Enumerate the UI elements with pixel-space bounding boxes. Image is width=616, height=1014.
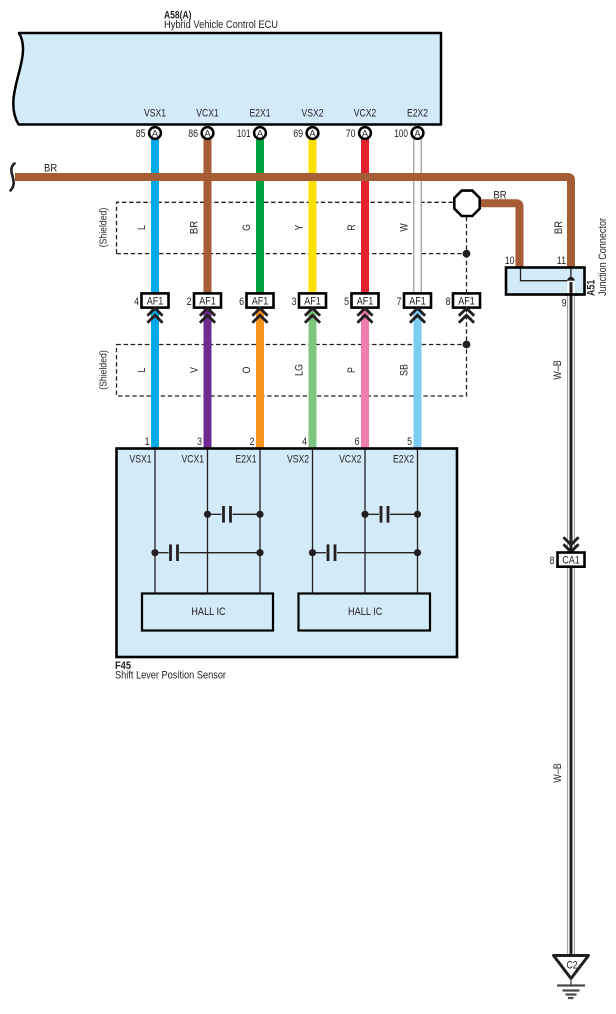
shift lever position sensor F45 box xyxy=(117,449,458,658)
wire W (white) pin 100 ECU to AF1 pin 7 xyxy=(413,138,421,294)
label BR (upper wire color, rotated) xyxy=(189,221,201,234)
ECU connector pin 100 terminal A xyxy=(394,127,423,140)
label A51 (rotated) xyxy=(586,280,598,296)
ECU connector pin 86 terminal A xyxy=(188,127,213,140)
svg-text:101: 101 xyxy=(237,128,251,140)
A51 pin number 11 xyxy=(557,255,566,267)
svg-text:A: A xyxy=(257,129,264,140)
sensor pin number 6 xyxy=(355,436,360,448)
sensor pin name VSX1 xyxy=(130,454,152,466)
label O (lower wire color, rotated) xyxy=(241,366,253,373)
internal conductor from pin 5 (E2X2) xyxy=(417,450,419,595)
shield node on box 1 xyxy=(463,250,471,258)
svg-text:VCX1: VCX1 xyxy=(196,108,218,120)
label BR (vertical run, rotated) xyxy=(553,221,565,234)
svg-text:70: 70 xyxy=(346,128,356,140)
svg-text:BR: BR xyxy=(493,190,506,202)
label L (lower wire color, rotated) xyxy=(136,368,148,373)
svg-text:VSX1: VSX1 xyxy=(144,108,166,120)
capacitor C-a between VCX1 and E2X1 xyxy=(204,506,264,523)
junction connector A51 box xyxy=(506,268,585,295)
label W (upper wire color, rotated) xyxy=(399,223,411,232)
connector AF1 pin 6 xyxy=(239,293,273,308)
sensor pin name VSX2 xyxy=(287,454,309,466)
label Hybrid Vehicle Control ECU xyxy=(164,19,278,31)
sensor pin name E2X1 xyxy=(236,454,257,466)
ECU pin name VCX2 xyxy=(354,108,376,120)
shield box 2 (lower shielded cable) xyxy=(117,345,467,397)
octagon splice junction xyxy=(454,191,479,216)
sensor pin number 3 xyxy=(197,436,202,448)
svg-text:Junction Connector: Junction Connector xyxy=(597,218,609,296)
internal conductor from pin 6 (VCX2) xyxy=(364,450,366,595)
svg-text:Hybrid Vehicle Control ECU: Hybrid Vehicle Control ECU xyxy=(164,19,278,31)
svg-text:E2X1: E2X1 xyxy=(236,454,257,466)
shield node on box 2 xyxy=(463,341,471,349)
svg-text:VCX2: VCX2 xyxy=(339,454,361,466)
ground point C2 triangle xyxy=(554,956,589,979)
svg-text:A: A xyxy=(362,129,369,140)
svg-text:85: 85 xyxy=(136,128,146,140)
svg-text:VSX2: VSX2 xyxy=(302,108,324,120)
capacitor C-b between VSX1 and E2X1 xyxy=(151,544,263,561)
svg-text:CA1: CA1 xyxy=(562,555,580,567)
label W-B (lower, rotated) xyxy=(552,763,564,783)
ground symbol bars xyxy=(557,979,585,999)
connector CA1 pin 8 xyxy=(550,553,585,568)
svg-text:A51: A51 xyxy=(586,280,598,296)
svg-text:2: 2 xyxy=(250,436,255,448)
label SB (lower wire color, rotated) xyxy=(399,364,411,376)
wire V from AF1 pin 2 to sensor pin 3 xyxy=(204,309,212,449)
svg-text:E2X1: E2X1 xyxy=(250,108,271,120)
svg-text:VCX2: VCX2 xyxy=(354,108,376,120)
chevron arrows below AF1 pin 4 xyxy=(147,308,162,323)
svg-text:100: 100 xyxy=(394,128,408,140)
shield drain wire (dashed) from AF1 pin 8 chevron to box 2 xyxy=(466,308,468,345)
shield drain wire (dashed) from octagon to node xyxy=(466,217,468,254)
sensor pin number 5 xyxy=(407,436,412,448)
svg-text:11: 11 xyxy=(557,255,566,267)
torn end squiggle of BR wire xyxy=(11,164,15,191)
svg-text:L: L xyxy=(136,225,148,230)
svg-text:AF1: AF1 xyxy=(199,296,216,308)
connector AF1 pin 2 xyxy=(187,293,221,308)
wire L from AF1 pin 4 to sensor pin 1 xyxy=(151,309,159,449)
svg-text:69: 69 xyxy=(293,128,303,140)
svg-text:5: 5 xyxy=(344,296,349,308)
sensor pin name VCX1 xyxy=(182,454,204,466)
chevron arrows above CA1 (pointing down) xyxy=(563,537,578,552)
internal conductor from pin 2 (E2X1) xyxy=(259,450,261,595)
connector AF1 pin 7 xyxy=(397,293,431,308)
A51 pin number 10 xyxy=(505,255,515,267)
wire L pin 85 ECU to AF1 pin 4 xyxy=(151,138,159,294)
label LG (lower wire color, rotated) xyxy=(294,364,306,376)
wire P from AF1 pin 5 to sensor pin 6 xyxy=(361,309,369,449)
ECU connector pin 69 terminal A xyxy=(293,127,318,140)
wire SB from AF1 pin 7 to sensor pin 5 xyxy=(414,309,422,449)
svg-text:8: 8 xyxy=(446,296,451,308)
label BR (octagon branch) xyxy=(493,190,506,202)
svg-text:AF1: AF1 xyxy=(357,296,374,308)
svg-text:1: 1 xyxy=(145,436,150,448)
svg-text:3: 3 xyxy=(197,436,202,448)
sensor pin number 1 xyxy=(145,436,150,448)
wire LG from AF1 pin 3 to sensor pin 4 xyxy=(309,309,317,449)
ECU pin name E2X1 xyxy=(250,108,271,120)
svg-text:5: 5 xyxy=(407,436,412,448)
svg-text:W–B: W–B xyxy=(552,763,564,783)
connector AF1 pin 4 xyxy=(134,293,168,308)
svg-text:7: 7 xyxy=(397,296,402,308)
svg-text:SB: SB xyxy=(399,364,411,376)
chevron arrows below AF1 pin 2 xyxy=(200,308,215,323)
svg-text:AF1: AF1 xyxy=(252,296,269,308)
label Shift Lever Position Sensor xyxy=(115,670,226,682)
wire BR from octagon junction to junction connector pin 10 xyxy=(481,203,520,267)
capacitor C-d between VSX2 and E2X2 xyxy=(309,544,421,561)
svg-text:W: W xyxy=(399,223,411,232)
ECU connector pin 101 terminal A xyxy=(237,127,266,140)
wire O from AF1 pin 6 to sensor pin 2 xyxy=(256,309,264,449)
label W-B (upper, rotated) xyxy=(552,360,564,380)
connector AF1 pin 8 xyxy=(446,293,480,308)
label G (upper wire color, rotated) xyxy=(241,224,253,231)
chevron arrows below AF1 pin 5 xyxy=(357,308,372,323)
label L (upper wire color, rotated) xyxy=(136,225,148,230)
svg-text:HALL IC: HALL IC xyxy=(348,606,382,618)
svg-text:AF1: AF1 xyxy=(304,296,321,308)
chevron arrows below AF1 pin 6 xyxy=(252,308,267,323)
wire Y pin 69 ECU to AF1 pin 3 xyxy=(309,138,317,294)
svg-text:C2: C2 xyxy=(567,960,578,972)
A51 box bottom border over W-B wire xyxy=(565,293,578,296)
chevron arrows below AF1 pin 8 xyxy=(459,308,474,323)
svg-text:10: 10 xyxy=(505,255,515,267)
wire BR pin 86 ECU to AF1 pin 2 xyxy=(204,138,212,294)
svg-text:4: 4 xyxy=(134,296,139,308)
label A58(A) xyxy=(164,10,192,22)
chevron arrows below AF1 pin 7 xyxy=(410,308,425,323)
svg-text:A: A xyxy=(309,129,316,140)
Hall IC 2 xyxy=(299,594,431,631)
shield drain wire (dashed) from node to AF1 pin 8 xyxy=(466,254,468,294)
svg-text:O: O xyxy=(241,366,253,373)
svg-text:AF1: AF1 xyxy=(458,296,475,308)
svg-text:(Shielded): (Shielded) xyxy=(99,208,110,248)
label F45 xyxy=(115,660,131,672)
label R (upper wire color, rotated) xyxy=(346,224,358,230)
sensor pin number 4 xyxy=(302,436,307,448)
svg-text:LG: LG xyxy=(294,364,306,376)
wire R pin 70 ECU to AF1 pin 5 xyxy=(361,138,369,294)
svg-text:6: 6 xyxy=(239,296,244,308)
svg-text:A: A xyxy=(204,129,211,140)
svg-text:A: A xyxy=(152,129,159,140)
svg-text:VSX2: VSX2 xyxy=(287,454,309,466)
svg-text:Shift Lever Position Sensor: Shift Lever Position Sensor xyxy=(115,670,226,682)
svg-text:8: 8 xyxy=(550,555,555,567)
wire W-B from A51 pin 9 to ground, upper section xyxy=(567,281,575,956)
label (Shielded) box 2 xyxy=(99,350,110,390)
internal conductor from pin 1 (VSX1) xyxy=(154,450,156,595)
A51 pin number 9 xyxy=(562,298,567,310)
chevron arrows below AF1 pin 3 xyxy=(305,308,320,323)
ECU pin name E2X2 xyxy=(407,108,428,120)
svg-text:HALL IC: HALL IC xyxy=(191,606,225,618)
svg-text:BR: BR xyxy=(553,221,565,234)
connector AF1 pin 3 xyxy=(292,293,326,308)
label Junction Connector (rotated) xyxy=(597,218,609,296)
Hall IC 1 xyxy=(142,594,273,631)
svg-text:3: 3 xyxy=(292,296,297,308)
sensor pin name VCX2 xyxy=(339,454,361,466)
svg-text:A: A xyxy=(414,129,421,140)
wire G pin 101 ECU to AF1 pin 6 xyxy=(256,138,264,294)
A51 internal bus bar xyxy=(521,269,571,281)
svg-text:P: P xyxy=(346,367,358,373)
svg-text:VSX1: VSX1 xyxy=(130,454,152,466)
sensor pin number 2 xyxy=(250,436,255,448)
ECU pin name VSX1 xyxy=(144,108,166,120)
ECU pin name VCX1 xyxy=(196,108,218,120)
svg-text:86: 86 xyxy=(188,128,198,140)
svg-text:AF1: AF1 xyxy=(409,296,426,308)
A51 internal junction node xyxy=(567,277,575,285)
svg-text:AF1: AF1 xyxy=(147,296,164,308)
connector AF1 pin 5 xyxy=(344,293,378,308)
ECU connector pin 85 terminal A xyxy=(136,127,161,140)
svg-text:VCX1: VCX1 xyxy=(182,454,204,466)
ECU pin name VSX2 xyxy=(302,108,324,120)
svg-text:R: R xyxy=(346,224,358,230)
capacitor C-c between VCX2 and E2X2 xyxy=(361,506,421,523)
svg-text:G: G xyxy=(241,224,253,231)
svg-text:BR: BR xyxy=(44,163,57,175)
sensor pin name E2X2 xyxy=(393,454,414,466)
svg-text:4: 4 xyxy=(302,436,307,448)
svg-text:E2X2: E2X2 xyxy=(407,108,428,120)
wire BR main horizontal run to junction connector pin 11 xyxy=(15,177,571,268)
svg-text:E2X2: E2X2 xyxy=(393,454,414,466)
svg-text:Y: Y xyxy=(294,224,306,230)
ECU A58(A) box (torn left edge) xyxy=(13,33,441,125)
svg-text:(Shielded): (Shielded) xyxy=(99,350,110,390)
internal conductor from pin 4 (VSX2) xyxy=(312,450,314,595)
label P (lower wire color, rotated) xyxy=(346,367,358,373)
svg-text:9: 9 xyxy=(562,298,567,310)
svg-text:2: 2 xyxy=(187,296,192,308)
internal conductor from pin 3 (VCX1) xyxy=(207,450,209,595)
label Y (upper wire color, rotated) xyxy=(294,224,306,230)
svg-text:6: 6 xyxy=(355,436,360,448)
label (Shielded) box 1 xyxy=(99,208,110,248)
svg-text:V: V xyxy=(189,367,201,373)
label BR (main wire) xyxy=(44,163,57,175)
svg-text:L: L xyxy=(136,368,148,373)
ECU connector pin 70 terminal A xyxy=(346,127,371,140)
shield box 1 (upper shielded cable) xyxy=(117,202,467,253)
label V (lower wire color, rotated) xyxy=(189,367,201,373)
svg-text:W–B: W–B xyxy=(552,360,564,380)
svg-text:BR: BR xyxy=(189,221,201,234)
